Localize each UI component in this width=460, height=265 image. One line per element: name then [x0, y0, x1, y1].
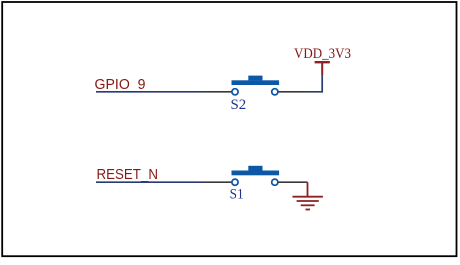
ground symbol bar 4 [306, 209, 311, 211]
svg-text:S1: S1 [230, 187, 244, 203]
svg-text:GPIO_9: GPIO_9 [95, 76, 146, 93]
ground symbol stem [307, 182, 309, 197]
power symbol VDD_3V3 stem [321, 62, 323, 76]
power symbol VDD_3V3 bar [315, 61, 330, 63]
switch S1 pin 2 lead [278, 181, 307, 183]
switch S2 pin 1 terminal circle [232, 89, 238, 95]
svg-text:S2: S2 [231, 97, 247, 113]
svg-text:VDD_3V3: VDD_3V3 [294, 46, 351, 62]
switch S1 pin 1 lead [204, 181, 232, 183]
switch S2 pin 2 terminal circle [272, 89, 278, 95]
switch S2 button bump [248, 76, 262, 81]
wire RESET_N net [96, 181, 204, 183]
wire GPIO_9 net [96, 91, 204, 93]
switch S2 actuator bar [232, 80, 280, 85]
switch S1 pin 2 terminal circle [272, 179, 278, 185]
svg-text:RESET_N: RESET_N [97, 166, 159, 183]
wire to VDD [307, 76, 322, 92]
ground symbol bar 2 [297, 200, 319, 202]
switch S1 button bump [248, 166, 262, 171]
switch S2 pin 2 lead [278, 91, 307, 93]
switch S1 pin 1 terminal circle [232, 179, 238, 185]
ground symbol bar 3 [301, 204, 315, 206]
ground symbol bar 1 [293, 196, 323, 198]
switch S2 pin 1 lead [204, 91, 232, 93]
switch S1 actuator bar [232, 171, 280, 176]
